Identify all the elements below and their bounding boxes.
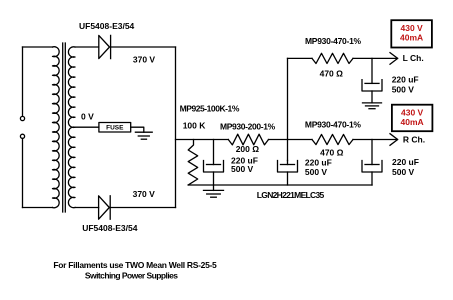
AC input open terminal lower segment [22, 139, 24, 208]
arrow L channel output [390, 53, 398, 65]
resistor R4 MP930-470-1% 470 ohm (R) [312, 134, 353, 144]
wire L channel row right with arrow [353, 57, 398, 59]
svg-text:MP930-470-1%: MP930-470-1% [305, 36, 362, 46]
svg-text:For Fillaments use TWO Mean We: For Fillaments use TWO Mean Well RS-25-5 [53, 260, 217, 270]
svg-text:100 K: 100 K [183, 120, 207, 130]
wire L channel row left [288, 57, 313, 59]
capacitor C1 220uF 500V (input filter) [204, 140, 224, 186]
transformer T1 core [63, 43, 66, 212]
resistor R3 MP930-470-1% 470 ohm (L) [312, 53, 353, 63]
transformer T1 secondary winding [68, 47, 75, 208]
svg-text:MP930-470-1%: MP930-470-1% [305, 119, 362, 129]
wire D2 cathode to B+ junction [110, 207, 175, 209]
capacitor C4 220uF 500V (L channel) [362, 58, 382, 103]
svg-text:220 uF: 220 uF [392, 157, 419, 167]
svg-text:500 V: 500 V [392, 84, 415, 94]
wire secondary center tap to fuse [75, 126, 99, 128]
svg-text:MP930-200-1%: MP930-200-1% [220, 122, 276, 132]
svg-text:40mA: 40mA [400, 33, 423, 43]
wire B+ junction vertical [175, 47, 177, 208]
capacitor C2 220uF 500V (node B) [278, 161, 298, 186]
svg-text:200 Ω: 200 Ω [236, 144, 260, 154]
node AC terminal 2 [20, 134, 24, 138]
fuse F1 [99, 123, 131, 133]
wire bottom ground rail [188, 184, 372, 186]
svg-text:Switching Power Supplies: Switching Power Supplies [85, 271, 178, 281]
AC input open terminal upper segment [22, 47, 24, 116]
arrow R channel output [390, 134, 398, 146]
transformer T1 primary winding [53, 47, 60, 208]
wire R channel row right with arrow [353, 139, 398, 141]
resistor R2 MP925-100K-1% bleeder 100K [188, 140, 198, 186]
wire AC input left loop top [23, 46, 53, 48]
svg-text:430 V: 430 V [401, 108, 424, 118]
wire 200 ohm to node B [269, 139, 288, 141]
output spec box R channel 430V 40mA [392, 105, 433, 132]
svg-text:470 Ω: 470 Ω [320, 69, 344, 79]
svg-text:40mA: 40mA [401, 117, 424, 127]
wire secondary top to diode D1 anode [75, 46, 99, 48]
wire B+ rail to 200 ohm resistor [176, 139, 229, 141]
ground bottom rail [204, 185, 224, 197]
svg-text:MP925-100K-1%: MP925-100K-1% [180, 104, 240, 114]
ground L channel [363, 103, 382, 109]
output spec box L channel 430V 40mA [391, 20, 432, 47]
node AC terminal 1 [20, 116, 24, 120]
svg-text:370 V: 370 V [133, 189, 156, 199]
svg-text:500 V: 500 V [305, 167, 328, 177]
diode D2 UF5408-E3/54 bottom [99, 196, 111, 219]
diode D1 UF5408-E3/54 top [99, 35, 111, 58]
svg-text:UF5408-E3/54: UF5408-E3/54 [79, 21, 135, 31]
svg-text:370 V: 370 V [133, 55, 156, 65]
svg-text:L Ch.: L Ch. [403, 53, 424, 63]
wire secondary bottom to diode D2 anode [75, 207, 99, 209]
resistor R1 MP930-200-1% 200 ohm [228, 134, 268, 145]
svg-text:UF5408-E3/54: UF5408-E3/54 [82, 223, 138, 233]
svg-text:470 Ω: 470 Ω [320, 148, 344, 158]
svg-text:LGN2H221MELC35: LGN2H221MELC35 [257, 190, 325, 200]
svg-text:500 V: 500 V [231, 164, 254, 174]
svg-text:500 V: 500 V [392, 167, 415, 177]
wire D1 cathode to B+ junction [111, 46, 176, 48]
svg-text:FUSE: FUSE [106, 125, 124, 132]
wire R channel row left [288, 139, 313, 141]
wire fuse to ground [131, 127, 144, 132]
wire AC input left loop bottom [23, 207, 53, 209]
wire node B vertical (to L channel row) [287, 58, 289, 160]
svg-text:R Ch.: R Ch. [403, 134, 425, 144]
ground center tap [135, 132, 152, 139]
svg-text:0 V: 0 V [81, 112, 94, 122]
svg-text:220 uF: 220 uF [392, 75, 419, 85]
svg-text:430 V: 430 V [400, 23, 423, 33]
capacitor C3 220uF 500V (R channel) [362, 140, 382, 186]
